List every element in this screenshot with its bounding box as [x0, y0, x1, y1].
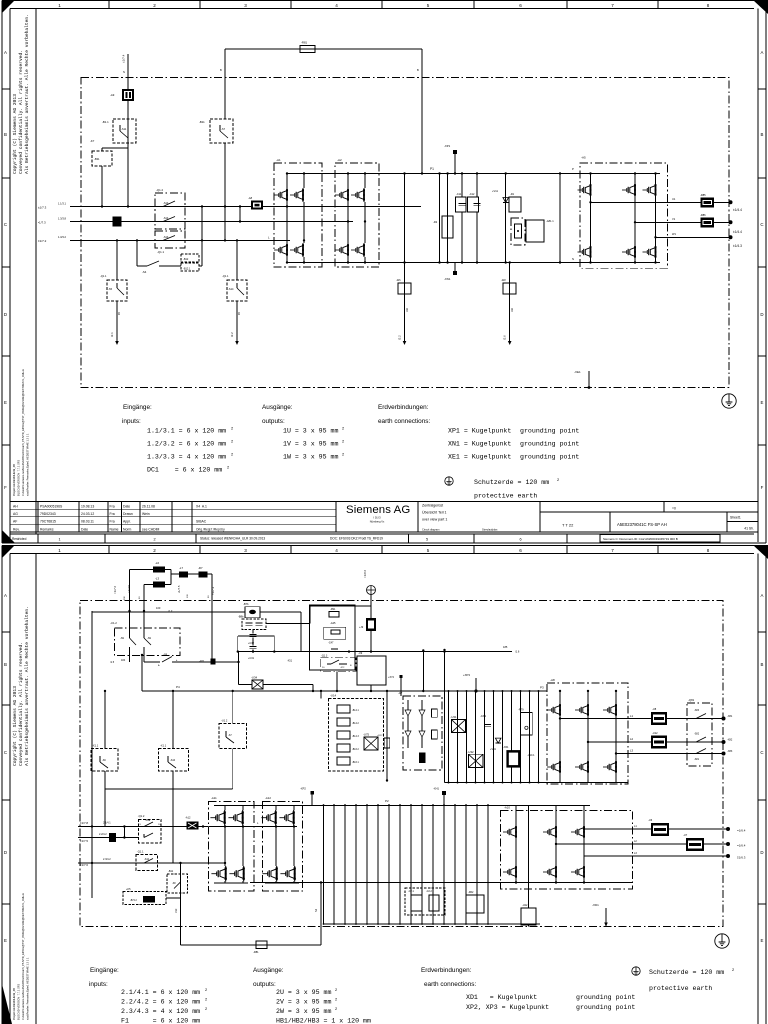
svg-text:Erdverbindungen:: Erdverbindungen: — [421, 967, 472, 974]
document id box — [600, 535, 720, 543]
svg-text:F: F — [761, 485, 764, 490]
svg-text:grounding point: grounding point — [576, 1004, 635, 1011]
wire vertical 423 — [422, 651, 424, 692]
svg-text:-U14: -U14 — [330, 694, 337, 698]
svg-text:2.3/4.2: 2.3/4.2 — [103, 858, 111, 861]
svg-text:-R85: -R85 — [700, 193, 706, 197]
svg-text:X4 A.1: X4 A.1 — [196, 504, 207, 508]
svg-text:A5E02378041C FS-SP AH: A5E02378041C FS-SP AH — [617, 522, 667, 527]
ground point XD1 — [605, 908, 607, 927]
sensor U8 — [651, 712, 667, 725]
svg-text:Eingänge:: Eingänge: — [90, 967, 119, 974]
svg-text:B: B — [4, 132, 7, 137]
svg-text:B: B — [220, 68, 222, 72]
sensor B12.1 — [181, 263, 199, 271]
svg-text:V1: V1 — [672, 217, 676, 221]
svg-text:C: C — [760, 750, 763, 755]
svg-text:-W1: -W1 — [396, 278, 401, 282]
svg-text:F: F — [4, 485, 7, 490]
svg-text:-B14.3: -B14.3 — [352, 736, 359, 738]
igbt module A5 — [580, 163, 667, 268]
igbt module A8 — [547, 683, 628, 784]
svg-text:-B72.2: -B72.2 — [130, 900, 137, 902]
node N bus — [286, 262, 660, 264]
svg-text:A: A — [4, 593, 7, 598]
svg-text:-S6: -S6 — [102, 759, 106, 762]
svg-text:N: N — [572, 257, 574, 261]
svg-text:Date: Date — [123, 504, 130, 508]
svg-text:C: C — [760, 222, 763, 227]
svg-text:+V11: +V11 — [492, 189, 498, 193]
svg-text:-A2: -A2 — [337, 158, 342, 162]
svg-text:08.03.11: 08.03.11 — [81, 520, 94, 524]
svg-text:XP2, XP3 = Kugelpunkt: XP2, XP3 = Kugelpunkt — [466, 1004, 549, 1011]
svg-text:Norm: Norm — [123, 527, 131, 531]
svg-text:1.1/3.1: 1.1/3.1 — [58, 202, 66, 206]
svg-text:-X1.1: -X1.1 — [160, 744, 167, 748]
svg-text:-U7: -U7 — [683, 833, 688, 837]
node N bus page2 — [250, 882, 632, 884]
limit switch X1.1 S10 — [172, 691, 174, 749]
contactor Q1.3 — [320, 658, 356, 672]
svg-text:Erdverbindungen:: Erdverbindungen: — [378, 404, 429, 411]
svg-text:/2.2: /2.2 — [398, 335, 402, 340]
svg-text:-U8: -U8 — [652, 707, 657, 711]
svg-text:-B11: -B11 — [199, 120, 205, 124]
svg-text:1.3/3.2: 1.3/3.2 — [58, 235, 66, 239]
svg-text:-XP1: -XP1 — [444, 144, 451, 148]
svg-text:2.1/4.1: 2.1/4.1 — [103, 822, 111, 825]
sensor U6 — [651, 823, 669, 836]
contactor Q81 — [687, 703, 712, 766]
wire to sheet 1/7.4 — [127, 54, 129, 89]
svg-text:-B14.1: -B14.1 — [352, 710, 359, 712]
svg-text:-XH1: -XH1 — [433, 787, 439, 791]
breaker Q1.1 S14 branch — [236, 240, 238, 280]
svg-text:Projekt HEDERNHEIM_4B: Projekt HEDERNHEIM_4B — [12, 464, 16, 496]
ground point X74 — [400, 676, 402, 696]
contactor Q1.1 S1b — [136, 855, 157, 871]
node P4 bus — [142, 690, 547, 692]
svg-text:Als Betriebsgeheimnis anvertra: Als Betriebsgeheimnis anvertraut. Alle R… — [24, 606, 30, 766]
status row — [9, 535, 11, 544]
svg-text:±1/4.3: ±1/4.3 — [733, 244, 742, 248]
svg-text:4: 4 — [335, 3, 338, 8]
svg-text:-L3: -L3 — [155, 577, 159, 581]
svg-text:Fra: Fra — [110, 520, 115, 524]
svg-text:-K7: -K7 — [90, 139, 95, 143]
svg-text:-L7: -L7 — [179, 566, 183, 570]
svg-text:-C11: -C11 — [456, 193, 462, 196]
svg-text:2.3/4.3 = 4 x 120 mm: 2.3/4.3 = 4 x 120 mm — [121, 1008, 200, 1015]
svg-text:-XN1: -XN1 — [444, 277, 451, 281]
svg-text:-U12: -U12 — [652, 731, 658, 735]
svg-text:100: 100 — [156, 606, 161, 610]
svg-text:-X83: -X83 — [727, 750, 733, 753]
ground point XP3 — [475, 678, 477, 691]
svg-text:P4: P4 — [176, 685, 180, 689]
connector X9 — [370, 606, 372, 618]
earth tap — [367, 586, 376, 595]
igbt module A10 — [501, 811, 633, 890]
igbt module A2 — [335, 163, 379, 267]
svg-text:protective earth: protective earth — [649, 985, 712, 992]
legend protective earth page2 — [632, 967, 640, 975]
svg-text:1: 1 — [58, 3, 61, 8]
output wire 1V — [635, 221, 731, 223]
output wire 2U — [584, 828, 728, 830]
svg-text:26.11.08: 26.11.08 — [142, 504, 155, 508]
diode V11 — [505, 174, 507, 263]
svg-text:XN1 = Kugelpunkt: XN1 = Kugelpunkt — [448, 441, 511, 448]
protective earth symbol — [722, 394, 736, 408]
svg-text:-R86: -R86 — [700, 213, 706, 217]
component A81.1 — [526, 220, 544, 242]
svg-text:-R81: -R81 — [253, 950, 259, 954]
svg-text:outputs:: outputs: — [262, 418, 285, 425]
svg-text:/1.5: /1.5 — [110, 661, 115, 664]
svg-text:5: 5 — [427, 3, 430, 8]
svg-text:=0: =0 — [672, 507, 676, 511]
rectifier A7 — [403, 696, 442, 770]
contactor Q1.2 S1a — [138, 819, 161, 843]
svg-text:E: E — [761, 400, 764, 405]
svg-text:•1/7.3: •1/7.3 — [38, 221, 46, 225]
svg-text:earth connections:: earth connections: — [378, 418, 430, 425]
svg-text:outputs:: outputs: — [253, 981, 276, 988]
terminals X8 — [722, 717, 726, 721]
svg-text:C: C — [4, 750, 7, 755]
svg-text:/2.6: /2.6 — [503, 335, 507, 340]
svg-text:AG: AG — [13, 512, 18, 516]
svg-text:inputs:: inputs: — [89, 981, 108, 988]
svg-text:inputs:: inputs: — [122, 418, 141, 425]
bus wire comb bottom — [324, 923, 541, 925]
wire node L page2 — [254, 826, 297, 828]
svg-text:-S82: -S82 — [694, 733, 700, 736]
svg-text:-X01: -X01 — [199, 659, 205, 663]
igbt module A11 — [209, 802, 255, 892]
svg-text:A: A — [4, 50, 7, 55]
svg-text:-S1a: -S1a — [145, 819, 151, 822]
svg-text:A: A — [761, 593, 764, 598]
svg-text:-S10: -S10 — [170, 759, 176, 762]
svg-text:D: D — [760, 850, 763, 855]
svg-text:/1.3: /1.3 — [168, 609, 173, 613]
svg-text:L2: L2 — [630, 737, 634, 741]
capacitor C32 — [252, 630, 254, 634]
svg-text:162: 162 — [406, 307, 409, 312]
svg-text:Conveyed confidentially. All r: Conveyed confidentially. All rights rese… — [18, 50, 24, 174]
svg-text:≡1/6.3: ≡1/6.3 — [737, 856, 746, 860]
svg-text:Drawn: Drawn — [123, 512, 133, 516]
svg-text:Remarks: Remarks — [40, 527, 54, 531]
svg-text:B: B — [417, 68, 419, 72]
sensor U12 — [651, 736, 667, 749]
component A9 filter — [122, 89, 134, 101]
svg-text:6: 6 — [519, 538, 521, 542]
svg-text:-U32: -U32 — [468, 750, 475, 754]
terminal bar X1 — [113, 217, 122, 227]
svg-text:8: 8 — [707, 3, 710, 8]
svg-text:D: D — [4, 850, 7, 855]
svg-text:2W = 3 x 95 mm: 2W = 3 x 95 mm — [276, 1008, 331, 1015]
svg-text:+J9: +J9 — [359, 625, 364, 629]
svg-text:+XP3: +XP3 — [463, 673, 470, 677]
breaker Q1.1 S5 branch — [116, 240, 118, 280]
svg-text:2: 2 — [153, 548, 156, 553]
svg-text:2.1/4.1 = 6 x 120 mm: 2.1/4.1 = 6 x 120 mm — [121, 989, 200, 996]
svg-text:-372: -372 — [340, 667, 345, 669]
svg-text:grounding point: grounding point — [520, 454, 579, 461]
svg-text:-Q1.1: -Q1.1 — [137, 850, 144, 854]
svg-text:1.3/3.8: 1.3/3.8 — [58, 217, 66, 221]
svg-text:-L6: -L6 — [155, 561, 159, 565]
svg-text:P1: P1 — [430, 167, 434, 171]
svg-text:Zentralgerüst: Zentralgerüst — [422, 504, 443, 508]
wire link — [123, 827, 125, 838]
capacitor C3.1 — [484, 723, 491, 725]
svg-text:Siemens AG: Siemens AG — [346, 504, 410, 516]
svg-text:-B8b: -B8b — [238, 615, 244, 619]
svg-text:-B1.1: -B1.1 — [102, 120, 109, 124]
svg-text:-U34: -U34 — [251, 676, 258, 680]
svg-text:±1/7.5: ±1/7.5 — [80, 839, 88, 843]
svg-text:7: 7 — [611, 548, 614, 553]
svg-text:N: N — [123, 70, 125, 74]
svg-text:=1/7.3: =1/7.3 — [211, 586, 215, 595]
bus wire 185 — [238, 651, 512, 653]
svg-text:±1/4.4: ±1/4.4 — [733, 208, 742, 212]
svg-text:C:/eesKS.siemens.net/EssDVA/PR: C:/eesKS.siemens.net/EssDVA/PRG//Circuit… — [21, 368, 25, 496]
svg-text:-S81: -S81 — [694, 758, 700, 761]
svg-text:HB1/HB2/HB3 = 1 x 120 mm: HB1/HB2/HB3 = 1 x 120 mm — [276, 1018, 371, 1024]
svg-text:XP1 = Kugelpunkt: XP1 = Kugelpunkt — [448, 428, 511, 435]
svg-text:-A10: -A10 — [504, 806, 510, 810]
svg-text:±1/7.4: ±1/7.4 — [122, 54, 126, 63]
svg-text:-S14: -S14 — [228, 287, 234, 291]
svg-text:Name: Name — [110, 527, 119, 531]
svg-text:-S5: -S5 — [108, 287, 113, 291]
svg-text:-C47: -C47 — [328, 642, 334, 645]
svg-text:=1/7.6: =1/7.6 — [113, 585, 117, 594]
svg-text:Nürnberg Vx: Nürnberg Vx — [370, 520, 385, 524]
igbt module A1 — [274, 163, 322, 267]
svg-text:C:/eesKS.siemens.net/EssDVA/PR: C:/eesKS.siemens.net/EssDVA/PRG//Circuit… — [21, 892, 25, 1020]
svg-text:=1/7.5: =1/7.5 — [127, 584, 131, 593]
svg-text:±1/4.4: ±1/4.4 — [733, 230, 742, 234]
svg-text:-Q1.2: -Q1.2 — [138, 814, 145, 818]
resistor R17.1 — [386, 691, 388, 781]
svg-text:7: 7 — [611, 3, 614, 8]
svg-text:Projekt HEDERNHEIM_4B: Projekt HEDERNHEIM_4B — [12, 988, 16, 1020]
svg-text:grounding point: grounding point — [576, 994, 635, 1001]
svg-text:-Q1.1: -Q1.1 — [222, 274, 229, 278]
EMC cabinet boundary page2 — [80, 601, 723, 927]
limit switch X1.1 S6 — [104, 691, 106, 749]
wire A9 down — [127, 101, 129, 207]
svg-text:+V31: +V31 — [490, 748, 497, 751]
svg-text:-R7: -R7 — [198, 566, 203, 570]
svg-text:-Q1.3: -Q1.3 — [321, 655, 328, 658]
svg-text:-B31: -B31 — [94, 157, 100, 161]
relay contact B1.1 S11 — [113, 119, 136, 143]
svg-text:-S1b: -S1b — [163, 236, 169, 239]
svg-text:see CADIM: see CADIM — [142, 527, 160, 531]
filter A12 input — [187, 822, 199, 830]
svg-text:-X61: -X61 — [503, 745, 509, 749]
terminal X01 — [211, 659, 216, 665]
svg-text:F1 = 6 x 120 mm: F1 = 6 x 120 mm — [121, 1018, 200, 1024]
svg-text:Restricted: Restricted — [12, 537, 27, 541]
title block — [10, 501, 758, 503]
svg-text:-U1.2: -U1.2 — [110, 621, 117, 625]
svg-text:BLOCAD-VERSION 7.7.1 SP2: BLOCAD-VERSION 7.7.1 SP2 — [17, 983, 21, 1020]
svg-text:41 Sh.: 41 Sh. — [744, 527, 754, 531]
svg-text:XD1 = Kugelpunkt: XD1 = Kugelpunkt — [466, 994, 537, 1001]
svg-text:±1/7.6: ±1/7.6 — [80, 863, 88, 867]
svg-text:grounding point: grounding point — [520, 428, 579, 435]
svg-text:PSA0005196S: PSA0005196S — [40, 504, 63, 508]
resistor R81 — [300, 46, 315, 53]
svg-text:-Q1.1: -Q1.1 — [100, 274, 107, 278]
svg-text:/2.1: /2.1 — [110, 332, 114, 337]
capacitor C12 — [476, 174, 478, 198]
svg-text:-B14.2: -B14.2 — [352, 723, 359, 725]
wire N2 vertical — [180, 863, 182, 945]
EMC cabinet boundary — [81, 78, 729, 388]
sensor B12 — [181, 254, 199, 262]
wire vertical — [439, 174, 441, 263]
sensor R86 — [701, 218, 715, 228]
svg-text:±1/7.8: ±1/7.8 — [80, 821, 88, 825]
legend protective earth — [445, 477, 453, 485]
svg-text:1U = 3 x 95 mm: 1U = 3 x 95 mm — [283, 428, 338, 435]
svg-text:-A7: -A7 — [398, 691, 403, 695]
svg-text:-S7: -S7 — [221, 127, 226, 131]
svg-text:-U1.2: -U1.2 — [221, 719, 228, 723]
capacitor bypass wires — [238, 635, 274, 637]
svg-text:-A5: -A5 — [581, 156, 586, 160]
svg-text:B: B — [761, 662, 764, 667]
svg-text:162: 162 — [511, 307, 514, 312]
converter U34 — [252, 680, 263, 689]
wire top dc link — [225, 48, 422, 50]
resistor R81 page2 — [256, 941, 267, 949]
svg-text:-B16.1: -B16.1 — [352, 762, 359, 764]
resistor R2 — [447, 174, 449, 263]
svg-text:2.2/4.2 = 6 x 120 mm: 2.2/4.2 = 6 x 120 mm — [121, 999, 200, 1006]
svg-text:DC1 = 6 x 120 mm: DC1 = 6 x 120 mm — [147, 467, 222, 474]
svg-text:2.2/4.2: 2.2/4.2 — [99, 833, 107, 836]
wire node L — [199, 265, 202, 267]
svg-text:Status: released WENKDHA_ULR 3: Status: released WENKDHA_ULR 30.09.2013 — [200, 537, 265, 541]
wire N branch 2.2 — [404, 174, 406, 342]
converter U32 — [469, 754, 484, 767]
svg-text:2V = 3 x 95 mm: 2V = 3 x 95 mm — [276, 999, 331, 1006]
switch box U1.2 — [115, 628, 181, 656]
svg-text:-B7b: -B7b — [243, 602, 249, 606]
svg-text:5: 5 — [426, 538, 428, 542]
ground point XN1 — [454, 263, 456, 273]
relay U9 — [357, 656, 386, 685]
svg-text:over view part 1: over view part 1 — [422, 518, 447, 522]
wire N branch 2.6 — [509, 263, 511, 342]
dc link verticals mid — [323, 805, 325, 924]
svg-text:SIBAC: SIBAC — [196, 520, 207, 524]
resistor R62 — [466, 895, 484, 913]
svg-text:E: E — [4, 400, 7, 405]
svg-text:-C2.1: -C2.1 — [408, 890, 415, 893]
svg-text:-W2: -W2 — [501, 278, 506, 282]
svg-text:stadtPruefer: Premselm.Epler1: stadtPruefer: Premselm.Epler1 HEDESTMA4E… — [26, 957, 30, 1020]
svg-text:-S4: -S4 — [142, 270, 147, 274]
svg-text:Fra: Fra — [110, 512, 115, 516]
svg-text:-U6: -U6 — [648, 818, 653, 822]
svg-text:-A12: -A12 — [265, 796, 271, 800]
svg-text:-S8: -S8 — [163, 653, 168, 657]
wire vertical left page2 — [91, 825, 93, 827]
svg-text:P3: P3 — [540, 686, 544, 690]
svg-text:Streulaufplan: Streulaufplan — [482, 528, 498, 532]
current transformer T1 — [251, 201, 263, 210]
filter U14 — [329, 699, 384, 772]
svg-text:-U10.1: -U10.1 — [527, 754, 535, 757]
svg-text:1N2: 1N2 — [175, 908, 178, 913]
svg-text:W1: W1 — [672, 232, 676, 236]
svg-text:2U = 3 x 95 mm: 2U = 3 x 95 mm — [276, 989, 331, 996]
svg-text:-S11: -S11 — [121, 127, 127, 131]
converter U31 — [451, 720, 465, 733]
svg-text:19.08.13: 19.08.13 — [81, 504, 94, 508]
contactor Q1.2 contacts S1b — [155, 193, 185, 229]
svg-text:1W = 3 x 95 mm: 1W = 3 x 95 mm — [283, 454, 338, 461]
svg-text:-S83: -S83 — [694, 709, 700, 712]
resistor R11 — [509, 197, 521, 212]
svg-text:-S1b: -S1b — [163, 217, 169, 220]
svg-text:Copyright (C) Siemens AG 2013: Copyright (C) Siemens AG 2013 — [12, 94, 18, 174]
resistor R7 — [199, 572, 208, 578]
bus wire 100 — [92, 611, 245, 613]
svg-text:-C2.2: -C2.2 — [426, 890, 433, 893]
node P2 bus — [214, 805, 590, 807]
svg-text:I 01 I3: I 01 I3 — [373, 516, 381, 520]
output wire 1W — [656, 236, 731, 238]
svg-text:-X81: -X81 — [727, 715, 733, 718]
svg-text:-XD1: -XD1 — [592, 903, 599, 907]
svg-text:1.2/3.2 = 6 x 120 mm: 1.2/3.2 = 6 x 120 mm — [147, 441, 226, 448]
svg-text:-A8: -A8 — [550, 678, 555, 682]
svg-text:/2.2: /2.2 — [230, 332, 234, 337]
svg-text:Übersicht Teil 1: Übersicht Teil 1 — [422, 511, 447, 515]
svg-text:6: 6 — [519, 3, 522, 8]
capacitor C31 — [250, 645, 257, 647]
power supply A25 — [310, 605, 356, 670]
svg-text:earth connections:: earth connections: — [424, 981, 476, 988]
svg-text:184: 184 — [121, 659, 126, 662]
output wire 1U — [591, 201, 731, 203]
svg-text:8: 8 — [707, 548, 710, 553]
svg-text:+C32: +C32 — [248, 642, 255, 645]
output wire 2W — [584, 855, 728, 857]
svg-text:-X51: -X51 — [287, 660, 293, 663]
svg-text:-B12.1: -B12.1 — [183, 268, 191, 271]
svg-text:P: P — [572, 167, 574, 171]
svg-text:-Q1.2: -Q1.2 — [156, 188, 163, 192]
svg-text:/1.6: /1.6 — [515, 650, 520, 654]
switch S4 branch — [136, 240, 138, 266]
svg-text:Circuit diagram: Circuit diagram — [422, 528, 439, 532]
